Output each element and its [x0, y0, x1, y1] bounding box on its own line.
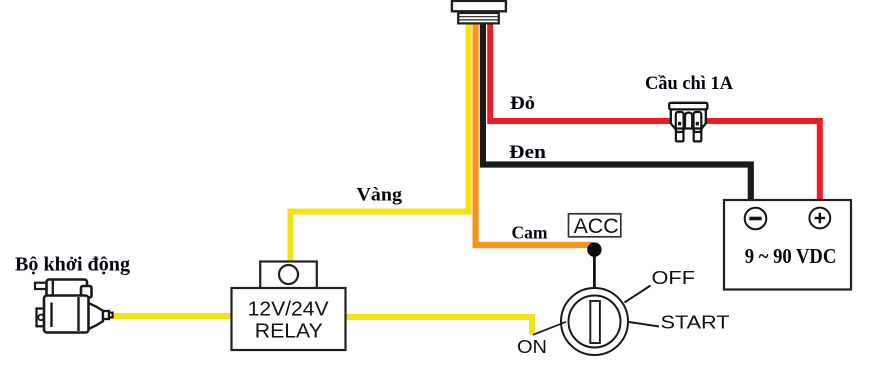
svg-text:9 ~ 90 VDC: 9 ~ 90 VDC: [745, 244, 837, 268]
svg-text:Cầu chì 1A: Cầu chì 1A: [645, 74, 734, 94]
svg-text:Cam: Cam: [512, 223, 548, 243]
svg-text:OFF: OFF: [652, 268, 696, 288]
svg-text:ACC: ACC: [574, 215, 619, 238]
svg-text:Đỏ: Đỏ: [510, 93, 535, 114]
svg-text:START: START: [661, 313, 730, 333]
svg-text:Vàng: Vàng: [357, 185, 403, 206]
svg-text:RELAY: RELAY: [255, 320, 323, 343]
svg-text:12V/24V: 12V/24V: [248, 298, 329, 321]
svg-text:Đen: Đen: [509, 142, 546, 163]
svg-text:ON: ON: [517, 337, 547, 357]
svg-text:Bộ khởi động: Bộ khởi động: [15, 255, 130, 276]
